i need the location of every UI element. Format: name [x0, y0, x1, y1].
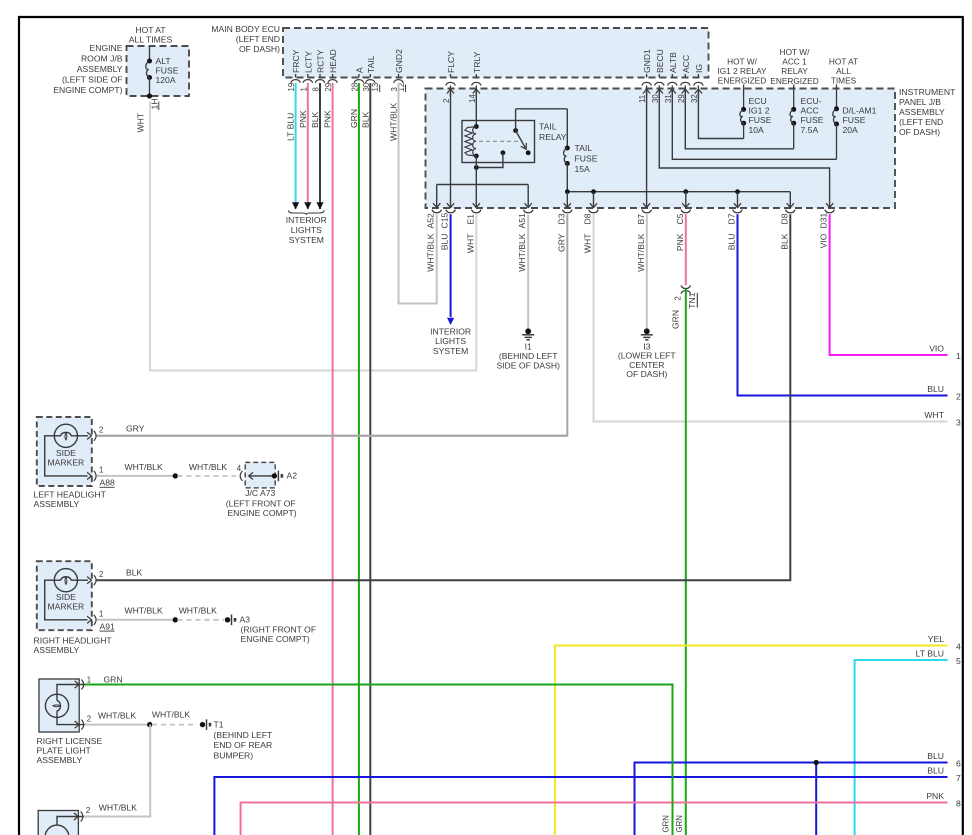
- svg-text:2: 2: [87, 714, 91, 723]
- svg-text:SIDE: SIDE: [56, 448, 76, 458]
- svg-text:A91: A91: [100, 621, 116, 631]
- svg-text:GRN: GRN: [675, 815, 684, 832]
- svg-text:WHT/BLK: WHT/BLK: [99, 802, 137, 812]
- svg-text:WHT: WHT: [465, 233, 475, 253]
- svg-text:BLK: BLK: [310, 111, 320, 128]
- svg-text:FLCY: FLCY: [446, 51, 456, 73]
- svg-text:SYSTEM: SYSTEM: [433, 346, 468, 356]
- svg-text:FRCY: FRCY: [291, 49, 301, 73]
- svg-text:OF DASH): OF DASH): [239, 44, 280, 54]
- svg-text:LIGHTS: LIGHTS: [435, 336, 466, 346]
- svg-text:LT BLU: LT BLU: [916, 649, 944, 659]
- svg-text:31: 31: [664, 94, 673, 103]
- svg-text:BLU: BLU: [727, 234, 737, 251]
- svg-text:A88: A88: [100, 478, 116, 488]
- svg-text:D3: D3: [556, 213, 566, 224]
- svg-text:A2: A2: [287, 471, 298, 481]
- svg-text:SIDE OF DASH): SIDE OF DASH): [496, 360, 560, 370]
- svg-text:ENERGIZED: ENERGIZED: [718, 76, 766, 86]
- svg-text:OF DASH): OF DASH): [626, 369, 667, 379]
- svg-text:BECU: BECU: [655, 49, 665, 73]
- svg-text:ASSEMBLY: ASSEMBLY: [34, 499, 80, 509]
- svg-text:BLK: BLK: [779, 233, 789, 250]
- svg-text:1: 1: [956, 351, 961, 361]
- svg-text:INTERIOR: INTERIOR: [430, 327, 471, 337]
- svg-text:WHT/BLK: WHT/BLK: [426, 233, 436, 271]
- svg-text:A3: A3: [240, 615, 251, 625]
- svg-text:(LEFT FRONT OF: (LEFT FRONT OF: [226, 498, 296, 508]
- svg-text:3: 3: [956, 418, 961, 428]
- svg-text:E1: E1: [465, 214, 475, 225]
- svg-text:FUSE: FUSE: [575, 153, 598, 163]
- svg-text:GRN: GRN: [349, 109, 359, 128]
- svg-text:WHT/BLK: WHT/BLK: [152, 710, 190, 720]
- svg-text:WHT: WHT: [924, 410, 944, 420]
- svg-text:30: 30: [651, 94, 660, 103]
- svg-text:OF DASH): OF DASH): [899, 127, 940, 137]
- svg-text:15A: 15A: [575, 164, 591, 174]
- svg-text:TAIL: TAIL: [539, 122, 557, 132]
- svg-text:GRY: GRY: [556, 233, 566, 252]
- svg-text:BUMPER): BUMPER): [214, 750, 254, 760]
- svg-text:32: 32: [690, 94, 699, 103]
- svg-text:7.5A: 7.5A: [801, 125, 819, 135]
- svg-text:(RIGHT FRONT OF: (RIGHT FRONT OF: [241, 624, 317, 634]
- svg-text:2: 2: [956, 392, 961, 402]
- svg-text:7: 7: [956, 773, 961, 783]
- svg-text:29: 29: [677, 94, 686, 103]
- svg-text:LIGHTS: LIGHTS: [291, 225, 322, 235]
- svg-text:LCTY: LCTY: [303, 51, 313, 73]
- svg-text:D8: D8: [583, 213, 593, 224]
- svg-text:PANEL J/B: PANEL J/B: [899, 97, 941, 107]
- svg-text:HOT AT: HOT AT: [829, 57, 858, 67]
- svg-text:PNK: PNK: [298, 110, 308, 128]
- svg-text:BLK: BLK: [126, 568, 143, 578]
- svg-text:14: 14: [468, 94, 477, 103]
- svg-text:RCTY: RCTY: [316, 49, 326, 73]
- svg-text:ACC: ACC: [801, 106, 819, 116]
- svg-text:MAIN BODY ECU: MAIN BODY ECU: [211, 24, 280, 34]
- svg-text:4: 4: [956, 642, 961, 652]
- svg-text:IG: IG: [694, 64, 704, 73]
- svg-text:J/C A73: J/C A73: [245, 488, 275, 498]
- svg-text:FUSE: FUSE: [843, 115, 866, 125]
- svg-text:TAIL: TAIL: [366, 55, 376, 73]
- svg-text:(LEFT SIDE OF: (LEFT SIDE OF: [62, 75, 122, 85]
- svg-text:BLU: BLU: [927, 766, 944, 776]
- svg-text:HOT W/: HOT W/: [727, 57, 757, 67]
- svg-text:1: 1: [99, 610, 103, 619]
- svg-text:D31: D31: [819, 213, 829, 229]
- svg-text:WHT: WHT: [136, 112, 146, 132]
- svg-text:HEAD: HEAD: [328, 49, 338, 73]
- svg-text:D/L-AM1: D/L-AM1: [843, 106, 877, 116]
- svg-text:TRLY: TRLY: [472, 51, 482, 73]
- svg-text:A52: A52: [426, 213, 436, 229]
- svg-text:GRN: GRN: [662, 815, 671, 832]
- svg-text:(LEFT END: (LEFT END: [236, 34, 280, 44]
- svg-text:GRN: GRN: [671, 310, 681, 329]
- svg-text:GRY: GRY: [126, 424, 145, 434]
- svg-text:VIO: VIO: [929, 344, 944, 354]
- svg-text:ALL: ALL: [836, 66, 851, 76]
- svg-text:ECU: ECU: [749, 96, 767, 106]
- svg-text:WHT/BLK: WHT/BLK: [98, 711, 136, 721]
- svg-text:ENGINE: ENGINE: [90, 43, 123, 53]
- svg-text:PNK: PNK: [323, 110, 333, 128]
- svg-text:SYSTEM: SYSTEM: [289, 235, 324, 245]
- svg-text:ROOM J/B: ROOM J/B: [81, 53, 123, 63]
- svg-text:RELAY: RELAY: [781, 66, 808, 76]
- svg-text:WHT/BLK: WHT/BLK: [124, 606, 162, 616]
- svg-text:10A: 10A: [749, 125, 765, 135]
- svg-text:ALTB: ALTB: [668, 52, 678, 73]
- svg-text:END OF REAR: END OF REAR: [214, 740, 273, 750]
- svg-text:IG1 2 RELAY: IG1 2 RELAY: [717, 66, 767, 76]
- svg-text:ASSEMBLY: ASSEMBLY: [37, 755, 83, 765]
- svg-text:FUSE: FUSE: [749, 115, 772, 125]
- svg-text:TN1: TN1: [687, 292, 697, 308]
- svg-text:RIGHT LICENSE: RIGHT LICENSE: [37, 736, 103, 746]
- svg-text:5: 5: [956, 656, 961, 666]
- svg-text:A: A: [354, 67, 364, 73]
- svg-text:ENGINE COMPT): ENGINE COMPT): [227, 508, 296, 518]
- svg-text:GRN: GRN: [104, 674, 123, 684]
- svg-text:WHT/BLK: WHT/BLK: [124, 462, 162, 472]
- svg-text:PNK: PNK: [675, 233, 685, 251]
- svg-text:BLK: BLK: [360, 111, 370, 128]
- svg-text:T1: T1: [214, 719, 224, 729]
- svg-text:C15: C15: [440, 213, 450, 229]
- svg-text:1: 1: [99, 466, 103, 475]
- svg-text:2: 2: [442, 99, 451, 103]
- svg-text:2: 2: [86, 806, 90, 815]
- svg-text:ASSEMBLY: ASSEMBLY: [34, 645, 80, 655]
- svg-text:ECU-: ECU-: [801, 96, 822, 106]
- svg-text:WHT/BLK: WHT/BLK: [517, 233, 527, 271]
- svg-text:RIGHT HEADLIGHT: RIGHT HEADLIGHT: [34, 636, 113, 646]
- svg-text:TAIL: TAIL: [575, 143, 593, 153]
- svg-text:8: 8: [956, 799, 961, 809]
- svg-text:20A: 20A: [843, 125, 859, 135]
- svg-text:PNK: PNK: [926, 791, 944, 801]
- svg-text:(BEHIND LEFT: (BEHIND LEFT: [214, 730, 273, 740]
- svg-text:ACC 1: ACC 1: [782, 57, 807, 67]
- svg-text:INTERIOR: INTERIOR: [286, 215, 327, 225]
- svg-text:WHT/BLK: WHT/BLK: [636, 233, 646, 271]
- svg-text:GND2: GND2: [394, 49, 404, 73]
- svg-text:D7: D7: [727, 213, 737, 224]
- svg-text:TIMES: TIMES: [831, 76, 857, 86]
- svg-text:(LEFT END: (LEFT END: [899, 117, 943, 127]
- svg-text:C5: C5: [675, 213, 685, 224]
- svg-text:ENGINE COMPT): ENGINE COMPT): [53, 85, 122, 95]
- svg-text:B7: B7: [636, 214, 646, 225]
- svg-text:VIO: VIO: [819, 233, 829, 248]
- svg-text:GND1: GND1: [642, 49, 652, 73]
- svg-text:13: 13: [371, 83, 380, 92]
- svg-text:FUSE: FUSE: [801, 115, 824, 125]
- svg-text:WHT/BLK: WHT/BLK: [389, 103, 399, 141]
- svg-text:ASSEMBLY: ASSEMBLY: [899, 107, 945, 117]
- svg-text:PLATE LIGHT: PLATE LIGHT: [37, 745, 92, 755]
- svg-text:ACC: ACC: [681, 55, 691, 73]
- svg-text:2: 2: [674, 296, 683, 300]
- svg-text:ALL TIMES: ALL TIMES: [129, 34, 173, 44]
- svg-text:4: 4: [237, 464, 242, 473]
- svg-text:11: 11: [638, 95, 647, 103]
- svg-text:WHT/BLK: WHT/BLK: [179, 606, 217, 616]
- svg-text:ASSEMBLY: ASSEMBLY: [77, 64, 123, 74]
- svg-text:LEFT HEADLIGHT: LEFT HEADLIGHT: [34, 490, 107, 500]
- svg-text:IG1 2: IG1 2: [749, 106, 770, 116]
- svg-text:ENERGIZED: ENERGIZED: [770, 76, 818, 86]
- svg-text:BLU: BLU: [927, 384, 944, 394]
- svg-text:INSTRUMENT: INSTRUMENT: [899, 87, 956, 97]
- svg-text:MARKER: MARKER: [48, 602, 85, 612]
- svg-text:WHT/BLK: WHT/BLK: [189, 462, 227, 472]
- svg-text:BLU: BLU: [927, 751, 944, 761]
- svg-text:MARKER: MARKER: [48, 458, 85, 468]
- svg-text:1: 1: [87, 675, 91, 684]
- svg-text:BLU: BLU: [440, 234, 450, 251]
- svg-text:ALT: ALT: [156, 56, 172, 66]
- svg-text:WHT: WHT: [583, 233, 593, 253]
- svg-text:FUSE: FUSE: [156, 66, 179, 76]
- svg-text:YEL: YEL: [928, 634, 944, 644]
- svg-text:LT BLU: LT BLU: [286, 113, 296, 141]
- svg-text:120A: 120A: [156, 75, 176, 85]
- svg-text:HOT W/: HOT W/: [780, 47, 810, 57]
- svg-text:ENGINE COMPT): ENGINE COMPT): [241, 634, 310, 644]
- svg-text:SIDE: SIDE: [56, 592, 76, 602]
- svg-text:RELAY: RELAY: [539, 132, 567, 142]
- svg-text:2: 2: [99, 570, 103, 579]
- svg-text:HOT AT: HOT AT: [135, 25, 166, 35]
- svg-text:2: 2: [99, 426, 103, 435]
- svg-text:6: 6: [956, 759, 961, 769]
- svg-text:A51: A51: [517, 213, 527, 229]
- svg-text:D8: D8: [779, 213, 789, 224]
